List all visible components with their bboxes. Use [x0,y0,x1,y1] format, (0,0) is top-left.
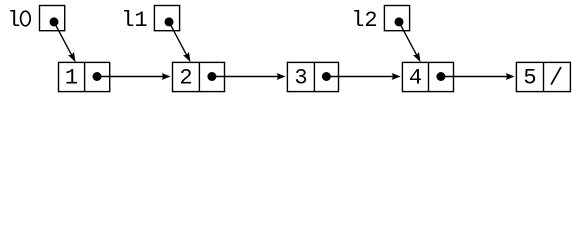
pointer box l0 [40,6,65,31]
pointer dot l0 [50,17,59,26]
node 3 box [287,62,338,91]
svg-text:2: 2 [179,66,192,91]
svg-text:l1: l1 [121,8,147,33]
pointer dot l1 [165,17,174,26]
node 2 box [173,62,225,91]
wire arrow node 1 to node 2 [97,73,171,80]
pointer box l2 [384,6,409,31]
node 2 dot [207,72,216,81]
wire arrow node 4 to node 5 [441,73,515,80]
label l0 [7,8,30,33]
svg-text:4: 4 [409,66,422,91]
svg-text:3: 3 [294,66,307,91]
node 4 divider [428,62,430,91]
wire arrow node 2 to node 3 [212,73,286,80]
node 3 divider [313,62,315,91]
svg-text:l2: l2 [351,8,377,33]
svg-text:5: 5 [523,66,536,91]
node 1 divider [84,62,86,91]
wire arrow node 3 to node 4 [326,73,400,80]
node 1 dot [93,72,102,81]
node 5 box [516,62,570,91]
pointer dot l2 [395,17,404,26]
node 1 box [59,62,110,91]
wire arrow l1 to node 2 [169,22,191,62]
wire arrow l0 to node 1 [54,22,76,62]
node 3 dot [322,72,331,81]
node 5 null slash [551,67,561,85]
wire arrow l2 to node 4 [399,22,421,62]
svg-text:1: 1 [65,66,78,91]
pointer box l1 [154,6,179,31]
node 4 dot [436,72,445,81]
node 2 divider [198,62,200,91]
node 5 divider [543,62,545,91]
node 4 box [402,62,453,91]
svg-text:l: l [7,8,20,33]
